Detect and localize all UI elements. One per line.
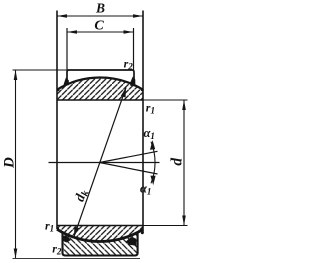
extension line C-left xyxy=(66,28,68,70)
svg-text:C: C xyxy=(94,19,104,34)
dimension d arrow top xyxy=(182,100,186,110)
inner ring top section (hatched) xyxy=(57,78,143,100)
centerline xyxy=(49,162,160,164)
angle arc alpha1 xyxy=(151,142,155,184)
outer ring bottom outline xyxy=(63,232,138,255)
inner ring bottom section (hatched) xyxy=(57,226,143,242)
dimension d arrow bottom xyxy=(182,216,186,226)
outer ring (top, unsectioned) outline xyxy=(67,70,134,85)
extension line D bottom xyxy=(13,258,141,260)
corner dot bottom-right inner ring xyxy=(141,231,144,234)
extension line C-right xyxy=(133,28,135,70)
dimension B arrow left xyxy=(57,14,67,18)
dimension D line xyxy=(15,70,17,259)
dk arrow bottom xyxy=(74,227,79,237)
dimension B line xyxy=(57,15,143,17)
extension line d top xyxy=(143,99,188,101)
corner blob r1 top-right (outer ring / sphere) xyxy=(130,77,136,87)
svg-text:D: D xyxy=(1,157,17,169)
sphere arc top xyxy=(57,78,143,90)
bore top line xyxy=(57,99,143,101)
misalignment ray lower xyxy=(100,163,158,175)
dimension D arrow top xyxy=(14,70,18,80)
dimension B arrow right xyxy=(133,14,143,18)
extension line B-right / inner ring right face xyxy=(142,11,144,234)
sphere diameter dk line xyxy=(74,88,126,237)
dimension D arrow bottom xyxy=(14,249,18,259)
corner blob bottom-left (outer ring / sphere) xyxy=(62,235,71,242)
dimension C line xyxy=(67,31,134,33)
dk arrow top xyxy=(121,88,126,98)
dimension C arrow left xyxy=(67,30,77,34)
svg-text:B: B xyxy=(95,1,105,16)
sphere arc bottom xyxy=(57,229,143,241)
corner blob bottom-right (outer ring / sphere) xyxy=(126,237,137,246)
corner blob r1 top-left (outer ring / sphere) xyxy=(64,78,69,85)
dimension C arrow right xyxy=(124,30,134,34)
extension line d bottom xyxy=(143,225,188,227)
dimension d line xyxy=(183,100,185,226)
extension line B-left / inner ring left face xyxy=(56,11,58,230)
angle arc arrow top xyxy=(150,140,155,150)
corner dot bottom-left inner ring xyxy=(57,227,60,230)
outer ring bottom section (hatched) xyxy=(63,232,138,255)
corner dot top-left inner ring xyxy=(57,88,60,91)
misalignment ray upper xyxy=(100,151,158,162)
extension line D top xyxy=(13,69,68,71)
corner dot top-right inner ring xyxy=(141,88,144,91)
bore bottom line xyxy=(57,225,143,227)
angle arc arrow bottom xyxy=(150,176,155,186)
svg-text:d: d xyxy=(169,158,186,166)
